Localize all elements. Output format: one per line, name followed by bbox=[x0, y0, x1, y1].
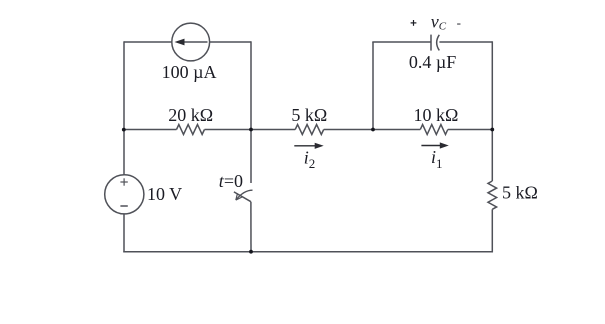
voltage source minus sign bbox=[120, 205, 127, 207]
wire bottom rail bbox=[123, 251, 493, 253]
switch SW blade bbox=[234, 192, 251, 202]
wire left rail lower bbox=[123, 214, 125, 253]
label i2 with arrow bbox=[294, 143, 323, 172]
wire right vertical of top-left loop bbox=[250, 41, 252, 129]
resistor R 20k zigzag bbox=[177, 125, 205, 135]
svg-text:5 kΩ: 5 kΩ bbox=[502, 183, 538, 203]
node dot bottom junction bbox=[249, 250, 253, 254]
voltage source V1 circle bbox=[105, 175, 144, 214]
wire left rail mid (node to source) bbox=[123, 130, 125, 175]
wire middle rail seg4 bbox=[448, 129, 493, 131]
voltage source plus sign bbox=[120, 178, 127, 185]
capacitor C left plate bbox=[430, 35, 432, 51]
svg-text:i1: i1 bbox=[431, 147, 443, 171]
node dot switch top bbox=[249, 128, 253, 132]
capacitor C right curved plate bbox=[437, 35, 440, 51]
svg-text:100 µA: 100 µA bbox=[162, 62, 217, 82]
node dot right middle bbox=[490, 128, 494, 132]
node dot capacitor-loop left bbox=[371, 128, 375, 132]
svg-text:-: - bbox=[457, 15, 461, 30]
resistor R 10k zigzag bbox=[420, 125, 447, 135]
svg-text:0.4 µF: 0.4 µF bbox=[409, 52, 456, 72]
wire capacitor loop left vertical bbox=[372, 42, 374, 130]
wire right rail lower bbox=[491, 209, 493, 252]
wire capacitor loop right vertical bbox=[491, 41, 493, 129]
switch SW lower wire bbox=[250, 202, 252, 252]
wire left rail upper bbox=[123, 41, 125, 129]
current source U1 circle bbox=[172, 23, 210, 61]
switch SW motion arc bbox=[236, 190, 252, 199]
wire right rail upper bbox=[491, 130, 493, 182]
svg-text:10 kΩ: 10 kΩ bbox=[413, 105, 458, 125]
svg-text:5 kΩ: 5 kΩ bbox=[291, 105, 327, 125]
resistor R 5k middle zigzag bbox=[295, 125, 323, 135]
svg-text:vC: vC bbox=[431, 12, 447, 33]
wire middle rail seg3 bbox=[324, 129, 421, 131]
wire top rail left segment bbox=[124, 41, 172, 43]
svg-text:i2: i2 bbox=[304, 147, 316, 171]
resistor R 5k right vertical zigzag bbox=[488, 181, 497, 209]
wire capacitor loop top-right segment bbox=[439, 41, 492, 43]
wire top rail right segment bbox=[210, 41, 251, 43]
wire capacitor loop top-left segment bbox=[372, 41, 431, 43]
svg-text:t=0: t=0 bbox=[219, 171, 243, 191]
wire middle rail seg2 bbox=[205, 129, 296, 131]
current source arrow bbox=[175, 39, 208, 46]
wire middle rail seg1 bbox=[124, 129, 177, 131]
label i1 with arrow bbox=[421, 142, 448, 171]
svg-text:10 V: 10 V bbox=[147, 184, 182, 204]
svg-text:20 kΩ: 20 kΩ bbox=[168, 105, 213, 125]
switch SW arc arrowhead bbox=[236, 193, 242, 200]
node dot left middle bbox=[122, 128, 126, 132]
switch SW top wire bbox=[250, 130, 252, 184]
label capacitor plus bbox=[411, 20, 417, 26]
